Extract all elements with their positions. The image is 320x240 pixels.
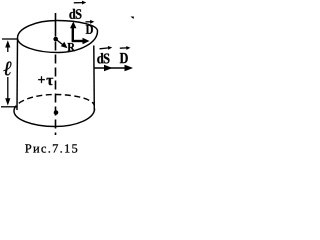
side vectors dS and D (collinear, pointing right) [94,65,133,72]
vector dS on top face (up arrow) [70,22,76,42]
dimension height: vertical line with arrows [5,40,10,105]
node: axis dot on bottom face [54,110,59,115]
label D (top) [86,25,93,34]
node: axis dot on top face [53,37,58,42]
cylinder axis upper solid segment [55,13,57,37]
bottom ellipse lower arc (solid) [14,109,95,127]
vector D on top face (right arrow) [72,38,90,44]
label D (side) [120,53,128,63]
label dS (top) [69,9,81,19]
label ell (cylinder height) [3,62,11,76]
cylinder axis dashed segment below top face [55,42,57,136]
label dS (side) [97,53,109,63]
cylinder left side [16,39,19,111]
label R [67,43,75,51]
vector bar over top D label [86,20,95,24]
label +tau (linear charge density on axis) [38,76,53,85]
stray print mark top right [131,17,135,20]
caption Ris. 7.15 [25,144,77,152]
bottom ellipse upper arc (dashed hidden edge) [14,95,94,112]
radius R arrow from axis dot [57,40,68,48]
dimension height: top tick [2,38,17,40]
vector bar over side D label [120,46,131,50]
top ellipse of cylinder [18,21,98,53]
vector bar over top dS label [74,1,87,5]
dimension height: bottom tick [1,106,17,108]
cylinder right side [93,46,96,111]
vector bar over side dS label [100,46,113,50]
